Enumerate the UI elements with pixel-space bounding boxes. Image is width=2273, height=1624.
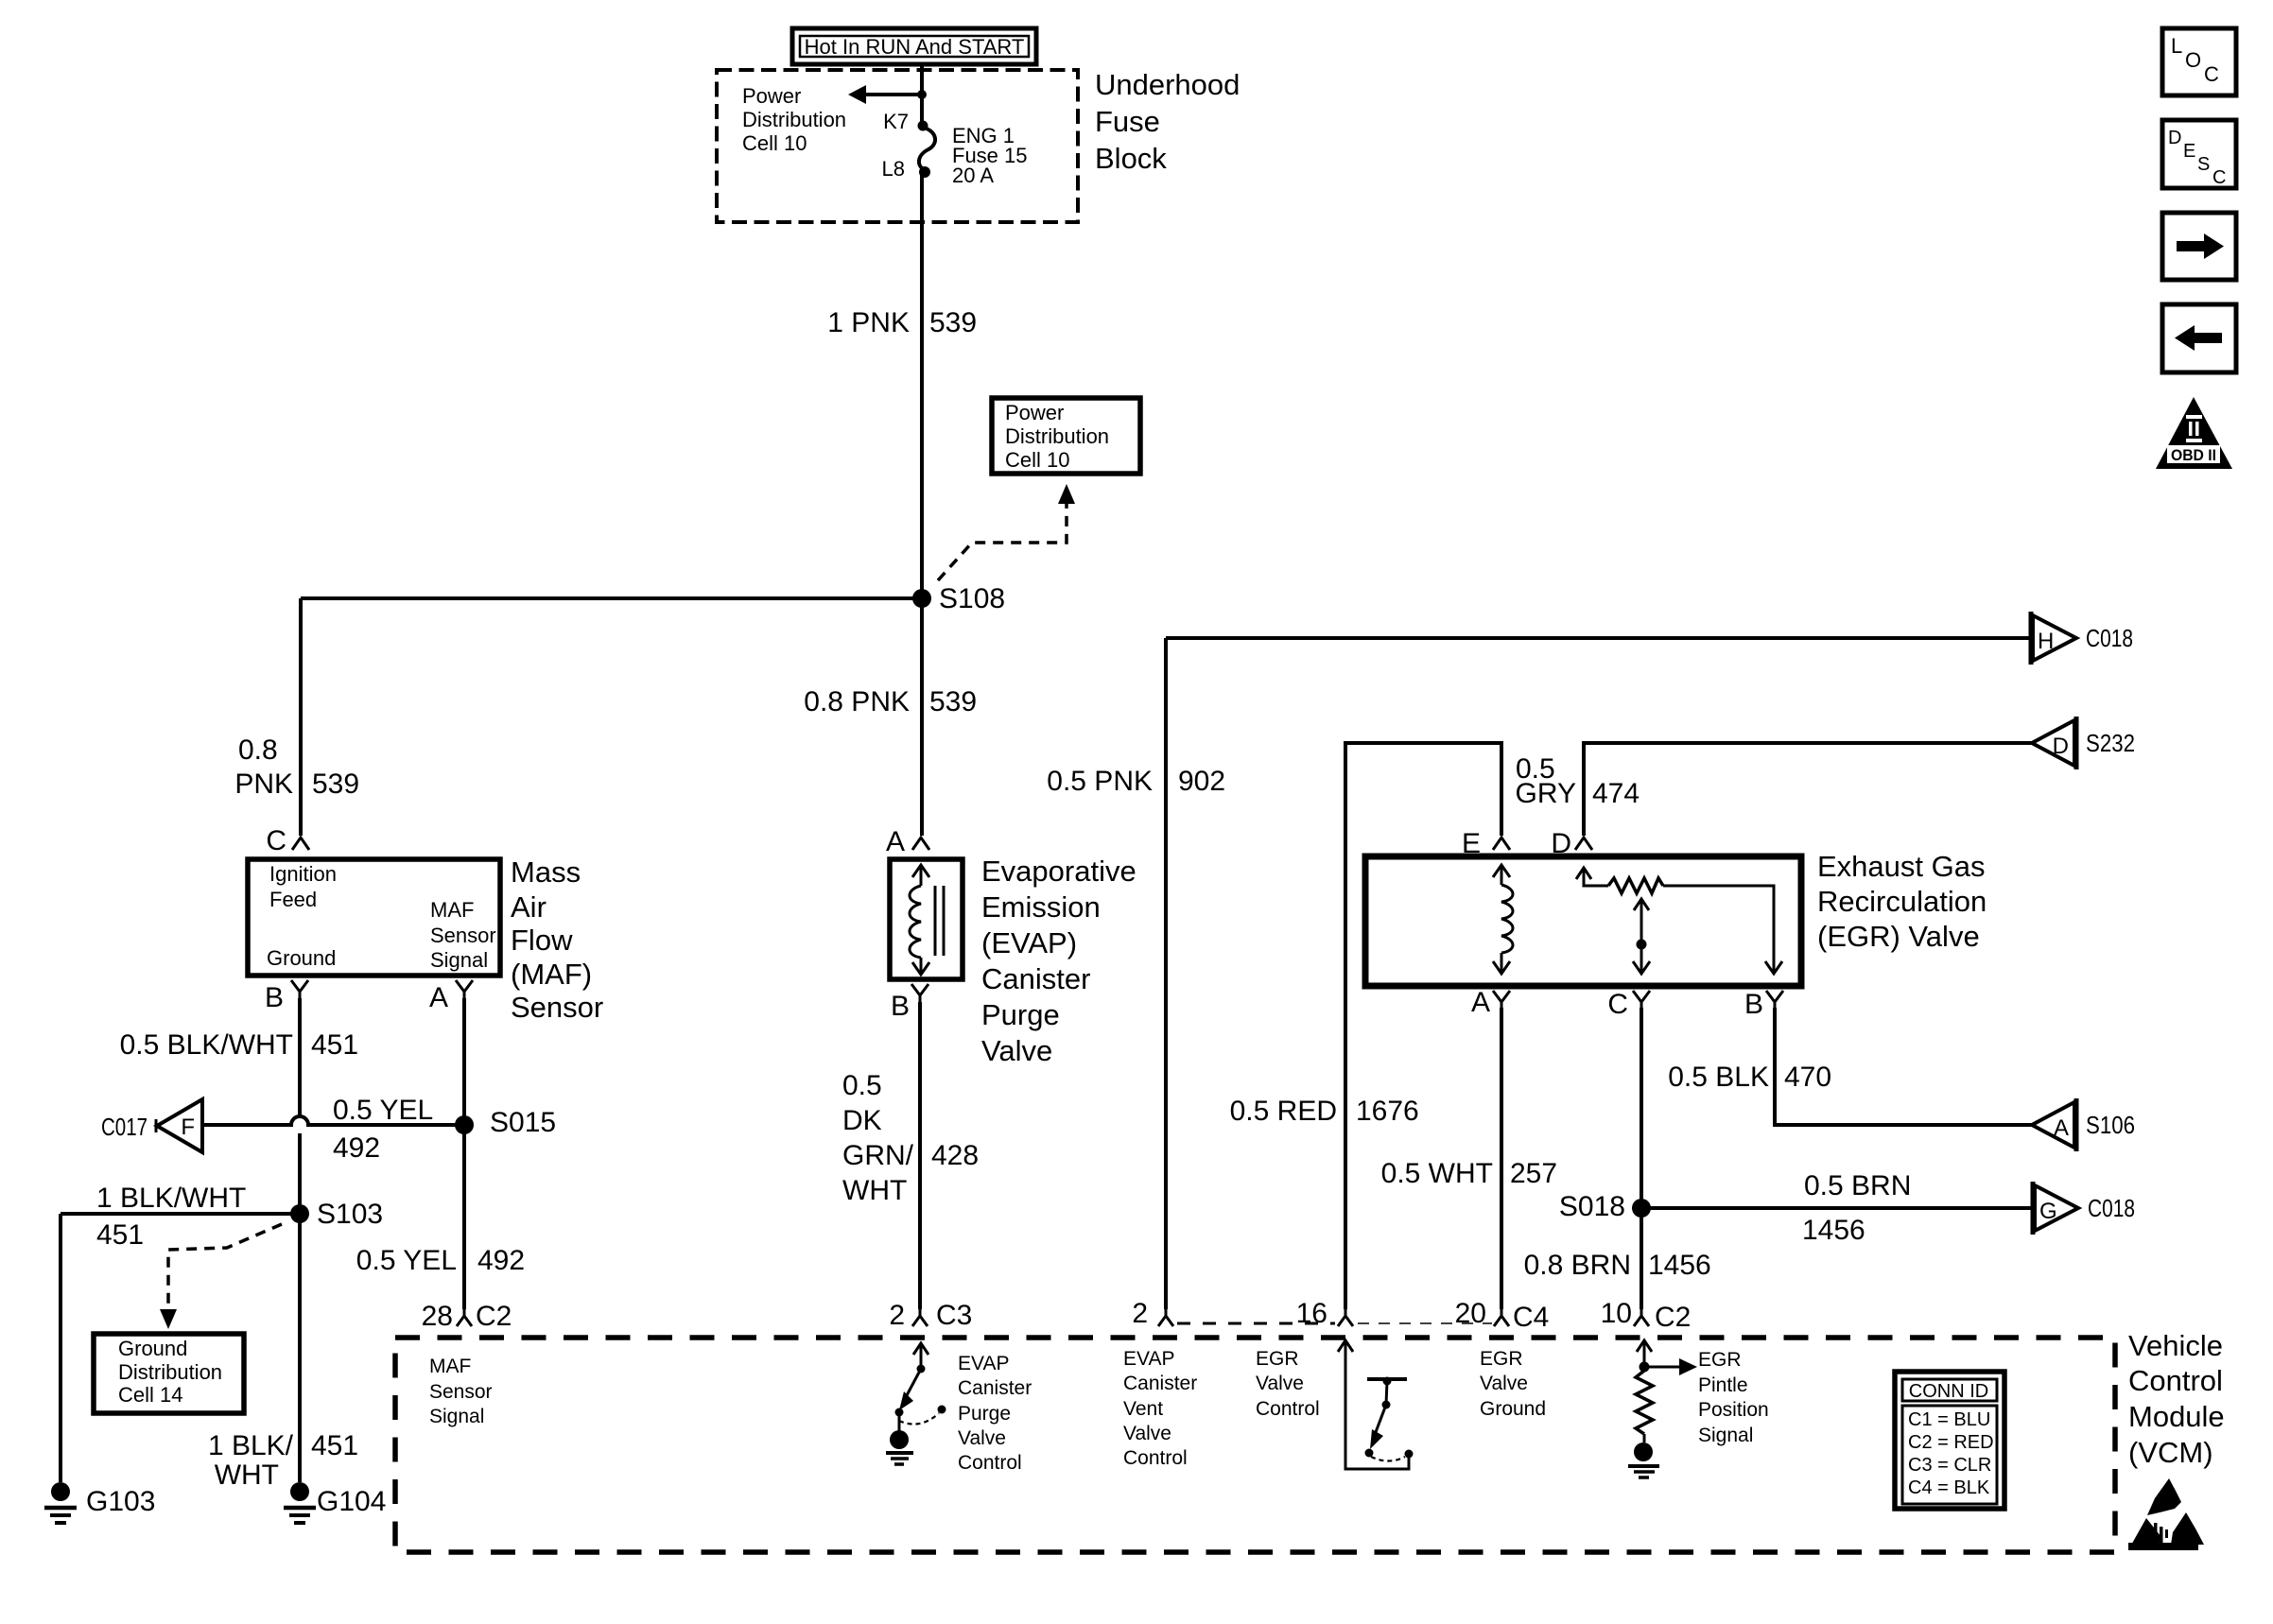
svg-text:WHT: WHT	[842, 1175, 907, 1206]
icon forward arrow box	[2162, 213, 2236, 280]
svg-text:C: C	[2212, 167, 2226, 188]
svg-text:2: 2	[1132, 1298, 1148, 1329]
svg-text:492: 492	[333, 1132, 380, 1164]
fuse ENG 1 Fuse 15 20 A	[919, 124, 1028, 187]
svg-text:Ground: Ground	[267, 946, 336, 970]
svg-text:Valve: Valve	[1123, 1423, 1171, 1444]
label MAF Sensor Signal (inside VCM)	[429, 1356, 493, 1427]
svg-text:Control: Control	[1123, 1447, 1188, 1469]
svg-text:1676: 1676	[1356, 1096, 1419, 1127]
svg-text:A: A	[1471, 987, 1490, 1018]
VCM dashed enclosure	[395, 1338, 2115, 1552]
svg-text:Distribution: Distribution	[742, 108, 846, 131]
svg-text:Sensor: Sensor	[429, 1381, 493, 1403]
svg-text:16: 16	[1296, 1298, 1327, 1329]
svg-text:539: 539	[929, 686, 977, 717]
svg-text:Canister: Canister	[981, 962, 1090, 995]
svg-text:Canister: Canister	[958, 1377, 1032, 1399]
pin C of EGR valve	[1607, 989, 1650, 1020]
svg-text:Signal: Signal	[430, 948, 488, 972]
MAF sensor box	[248, 859, 500, 976]
svg-text:Distribution: Distribution	[1005, 424, 1109, 448]
svg-text:S106: S106	[2086, 1111, 2135, 1139]
pin strip dashes pin2 to pin16	[1177, 1322, 1335, 1325]
svg-text:G103: G103	[86, 1486, 155, 1517]
terminal L8	[882, 157, 930, 181]
svg-text:0.5 YEL: 0.5 YEL	[356, 1245, 457, 1276]
svg-text:0.5 YEL: 0.5 YEL	[333, 1095, 433, 1126]
dashed reference arrow from S108 to Power Distribution box	[938, 484, 1075, 580]
svg-text:A: A	[429, 982, 448, 1013]
svg-text:Control: Control	[2128, 1364, 2223, 1397]
svg-text:Power: Power	[1005, 401, 1064, 424]
label EGR Valve Control	[1256, 1348, 1320, 1420]
wire 0.5 BLK/WHT 451 from MAF B down	[120, 998, 358, 1116]
svg-text:0.8 PNK: 0.8 PNK	[804, 686, 910, 717]
svg-text:Pintle: Pintle	[1698, 1374, 1748, 1396]
svg-text:S: S	[2197, 154, 2210, 175]
wire 0.5 WHT 257 from EGR A down to VCM pin 20	[1381, 1008, 1557, 1309]
wire 1 BLK/WHT 451 branch to G103	[61, 1183, 300, 1482]
svg-text:428: 428	[931, 1140, 979, 1171]
svg-text:C4 = BLK: C4 = BLK	[1908, 1477, 1990, 1498]
svg-text:OBD II: OBD II	[2171, 446, 2216, 464]
wire 0.8 PNK 539 down to MAF C	[234, 598, 359, 836]
svg-text:C2: C2	[476, 1301, 512, 1332]
svg-text:Recirculation: Recirculation	[1817, 885, 1987, 918]
svg-text:Emission: Emission	[981, 890, 1101, 924]
Ground Distribution Cell 14 reference box	[94, 1334, 244, 1413]
svg-text:GRY: GRY	[1516, 778, 1576, 809]
connector C017 triangle F	[101, 1099, 202, 1152]
EGR pintle internal ground	[1628, 1443, 1659, 1477]
connector S232 triangle D	[2032, 717, 2135, 769]
svg-text:Control: Control	[1256, 1398, 1320, 1420]
svg-text:0.8: 0.8	[238, 734, 278, 766]
svg-text:A: A	[2054, 1115, 2069, 1141]
svg-text:GRN/: GRN/	[842, 1140, 914, 1171]
svg-text:0.5 BRN: 0.5 BRN	[1804, 1170, 1911, 1201]
svg-text:C4: C4	[1513, 1302, 1549, 1333]
svg-text:Purge: Purge	[981, 998, 1060, 1031]
EVAP purge valve core bars	[935, 886, 944, 956]
svg-text:EGR: EGR	[1256, 1348, 1299, 1370]
svg-text:Control: Control	[958, 1452, 1022, 1474]
svg-text:Flow: Flow	[511, 924, 573, 957]
svg-text:O: O	[2185, 48, 2201, 72]
svg-text:Block: Block	[1095, 142, 1167, 175]
svg-text:C2: C2	[1655, 1302, 1691, 1333]
EVAP purge valve control driver (inside VCM)	[895, 1343, 946, 1431]
label Evaporative Emission (EVAP) Canister Purge Valve	[981, 855, 1136, 1067]
ground G103	[44, 1482, 155, 1523]
VCM pin 2 connector C3	[889, 1300, 972, 1331]
svg-text:Cell 14: Cell 14	[118, 1383, 182, 1407]
EVAP driver internal ground	[886, 1430, 913, 1464]
svg-text:Sensor: Sensor	[511, 991, 603, 1024]
svg-text:Exhaust Gas: Exhaust Gas	[1817, 850, 1985, 883]
svg-text:0.5 BLK: 0.5 BLK	[1668, 1062, 1769, 1093]
svg-text:539: 539	[312, 769, 359, 800]
svg-text:A: A	[886, 826, 905, 857]
icon DESC box	[2162, 120, 2236, 188]
svg-text:Valve: Valve	[981, 1034, 1052, 1067]
pin A of EGR valve	[1471, 987, 1510, 1018]
svg-text:EGR: EGR	[1480, 1348, 1523, 1370]
connector S106 triangle A	[2032, 1098, 2135, 1151]
svg-text:257: 257	[1510, 1158, 1557, 1189]
terminal K7	[883, 110, 928, 133]
label Exhaust Gas Recirculation (EGR) Valve	[1817, 850, 1987, 953]
svg-text:L: L	[2171, 34, 2182, 58]
dashed reference arrow from S103 to Ground Distribution box	[160, 1224, 282, 1329]
Underhood Fuse Block dashed enclosure	[717, 70, 1078, 222]
svg-text:E: E	[2183, 141, 2195, 162]
svg-text:1456: 1456	[1802, 1215, 1865, 1246]
connector A at EVAP purge valve	[886, 826, 929, 857]
svg-text:C: C	[266, 825, 286, 856]
svg-text:Cell 10: Cell 10	[742, 131, 807, 155]
svg-text:S232: S232	[2086, 729, 2135, 757]
svg-text:451: 451	[96, 1219, 144, 1251]
svg-text:0.5 RED: 0.5 RED	[1230, 1096, 1337, 1127]
svg-text:B: B	[1744, 989, 1763, 1020]
connector D at EGR valve	[1551, 828, 1592, 859]
label EVAP Canister Vent Valve Control	[1123, 1348, 1197, 1469]
svg-text:Signal: Signal	[1698, 1425, 1753, 1446]
pin B of EVAP purge valve	[891, 984, 928, 1022]
EGR valve box	[1365, 856, 1801, 986]
svg-text:B: B	[891, 991, 910, 1022]
svg-text:K7: K7	[883, 110, 909, 133]
EGR pintle potentiometer (pin D arrow, resistor, wiper)	[1576, 868, 1782, 974]
svg-text:C: C	[2204, 62, 2219, 86]
svg-text:Evaporative: Evaporative	[981, 855, 1136, 888]
svg-text:0.5 PNK: 0.5 PNK	[1047, 766, 1153, 797]
Power Distribution Cell 10 reference box	[992, 398, 1140, 474]
wire 0.5 GRY 474 from EGR D to S232 D	[1516, 743, 2032, 836]
svg-text:Vehicle: Vehicle	[2128, 1329, 2223, 1362]
svg-text:C3: C3	[936, 1300, 972, 1331]
svg-text:DK: DK	[842, 1105, 882, 1136]
svg-text:Underhood: Underhood	[1095, 68, 1240, 101]
svg-text:Canister: Canister	[1123, 1373, 1197, 1394]
connector C018 triangle H	[2031, 612, 2133, 665]
VCM pin 10 connector C2	[1601, 1298, 1692, 1333]
svg-text:451: 451	[311, 1430, 358, 1461]
svg-text:28: 28	[422, 1301, 453, 1332]
pin strip dashes pin16 to pin20	[1358, 1322, 1492, 1324]
svg-text:0.5: 0.5	[842, 1070, 882, 1101]
svg-text:MAF: MAF	[429, 1356, 471, 1377]
svg-text:1 PNK: 1 PNK	[827, 307, 910, 338]
svg-text:Ignition: Ignition	[269, 862, 337, 886]
label Underhood Fuse Block	[1095, 68, 1240, 175]
wire 0.8 BRN 1456 from EGR C down through S018 to VCM pin 10	[1524, 1008, 1711, 1309]
wire S108 branch left (ignition feed to MAF)	[301, 596, 922, 600]
svg-text:L8: L8	[882, 157, 905, 181]
label MAF Sensor Signal (MAF pin A)	[430, 898, 496, 972]
EVAP purge valve solenoid coil	[910, 865, 929, 975]
svg-text:492: 492	[477, 1245, 525, 1276]
label EVAP Canister Purge Valve Control	[958, 1353, 1032, 1474]
svg-text:0.8 BRN: 0.8 BRN	[1524, 1250, 1631, 1281]
svg-text:CONN ID: CONN ID	[1909, 1381, 1988, 1402]
arrow to Power Distribution Cell 10 (left feed)	[848, 85, 922, 104]
svg-text:EVAP: EVAP	[958, 1353, 1009, 1374]
svg-text:Valve: Valve	[958, 1427, 1006, 1449]
svg-text:Distribution: Distribution	[118, 1360, 222, 1384]
svg-text:S103: S103	[317, 1199, 383, 1230]
svg-text:S018: S018	[1559, 1191, 1625, 1222]
EGR pintle position sense (inside VCM)	[1636, 1340, 1697, 1443]
wire 0.5 DK GRN/WHT 428 from EVAP B down to VCM pin 2 C3	[842, 1002, 979, 1309]
connector C at MAF sensor	[266, 825, 309, 856]
svg-text:20 A: 20 A	[952, 164, 994, 187]
svg-text:Feed: Feed	[269, 888, 317, 911]
svg-text:Vent: Vent	[1123, 1398, 1163, 1420]
EGR valve control driver (inside VCM)	[1338, 1340, 1414, 1469]
svg-text:539: 539	[929, 307, 977, 338]
svg-text:C1 = BLU: C1 = BLU	[1908, 1409, 1990, 1430]
svg-text:Mass: Mass	[511, 855, 581, 889]
svg-text:(EGR) Valve: (EGR) Valve	[1817, 920, 1980, 953]
svg-text:Ground: Ground	[118, 1337, 187, 1360]
svg-text:EGR: EGR	[1698, 1349, 1742, 1371]
wire 0.5 BLK 470 from EGR B to S106 A	[1668, 1008, 2033, 1125]
svg-text:C017: C017	[101, 1113, 147, 1141]
splice S018	[1559, 1191, 1651, 1222]
splice S108	[912, 583, 1005, 614]
label EGR Valve Ground	[1480, 1348, 1546, 1420]
wire 0.5 BRN 1456 from S018 to C018 G	[1641, 1170, 2033, 1246]
wire 0.5 RED 1676 from EGR E up over to VCM pin 16	[1230, 743, 1501, 1309]
svg-text:G104: G104	[317, 1486, 386, 1517]
svg-text:MAF: MAF	[430, 898, 474, 922]
svg-text:0.5 BLK/WHT: 0.5 BLK/WHT	[120, 1029, 293, 1061]
label Power Distribution Cell 10 (in fuse block)	[742, 84, 846, 155]
svg-text:S108: S108	[939, 583, 1005, 614]
connector E at EGR valve	[1462, 828, 1510, 859]
svg-text:451: 451	[311, 1029, 358, 1061]
wire 0.5 PNK 902 down to VCM pin 2 (vent valve)	[1047, 638, 1225, 1309]
pin A of MAF sensor	[429, 980, 473, 1013]
wire 0.5 PNK 902 horizontal run to C018 H	[1166, 636, 2031, 640]
svg-text:1456: 1456	[1648, 1250, 1711, 1281]
icon LOC box	[2162, 28, 2236, 95]
CONN ID table	[1895, 1372, 2004, 1509]
EGR solenoid coil (pin E to A)	[1493, 865, 1513, 974]
svg-text:902: 902	[1178, 766, 1225, 797]
svg-text:H: H	[2038, 629, 2054, 654]
VCM pin 16	[1296, 1298, 1353, 1329]
svg-text:D: D	[2053, 734, 2069, 759]
VCM pin 2 (EVAP vent)	[1132, 1298, 1173, 1329]
svg-text:C2 = RED: C2 = RED	[1908, 1432, 1994, 1453]
svg-text:0.5 WHT: 0.5 WHT	[1381, 1158, 1493, 1189]
icon back arrow box	[2162, 304, 2236, 372]
svg-text:(MAF): (MAF)	[511, 958, 592, 991]
ESD sensitive device symbol	[2128, 1478, 2204, 1550]
ground G104	[284, 1482, 386, 1523]
svg-text:Fuse: Fuse	[1095, 105, 1160, 138]
VCM pin 20 connector C4	[1455, 1298, 1550, 1333]
svg-text:Valve: Valve	[1256, 1373, 1304, 1394]
svg-text:G: G	[2039, 1199, 2057, 1224]
svg-text:Signal: Signal	[429, 1406, 484, 1427]
svg-text:Module: Module	[2128, 1400, 2225, 1433]
svg-text:Purge: Purge	[958, 1403, 1011, 1425]
pin B of EGR valve	[1744, 989, 1783, 1020]
svg-text:20: 20	[1455, 1298, 1486, 1329]
svg-text:Ground: Ground	[1480, 1398, 1546, 1420]
label Ignition Feed (MAF pin C)	[269, 862, 337, 911]
svg-text:(VCM): (VCM)	[2128, 1436, 2213, 1469]
svg-text:Air: Air	[511, 890, 547, 924]
svg-text:Power: Power	[742, 84, 801, 108]
svg-text:PNK: PNK	[234, 769, 293, 800]
svg-text:EVAP: EVAP	[1123, 1348, 1174, 1370]
splice S015	[455, 1107, 556, 1138]
svg-text:1 BLK/: 1 BLK/	[208, 1430, 294, 1461]
svg-text:Hot In RUN And START: Hot In RUN And START	[805, 35, 1025, 59]
svg-text:Position: Position	[1698, 1399, 1769, 1421]
svg-text:Valve: Valve	[1480, 1373, 1528, 1394]
wire from Hot In RUN And START down to fuse terminal K7	[920, 62, 924, 126]
wire 1 PNK 539 from fuse L8 down to splice S108	[827, 172, 977, 598]
svg-text:F: F	[181, 1114, 195, 1140]
label Vehicle Control Module (VCM)	[2128, 1329, 2225, 1469]
wire 0.5 YEL 492 from MAF A down to VCM pin 28	[356, 998, 525, 1309]
svg-text:D: D	[2168, 128, 2181, 148]
svg-text:474: 474	[1592, 778, 1640, 809]
wire 1 BLK/WHT 451 from S103 down to G104	[208, 1214, 358, 1491]
node B+ Hot In RUN And START box	[792, 28, 1036, 64]
EVAP purge valve box	[890, 859, 963, 979]
wire 0.8 PNK 539 from S108 down to EVAP valve A	[804, 598, 977, 836]
icon OBD II triangle	[2156, 397, 2232, 469]
svg-text:C018: C018	[2088, 1194, 2135, 1222]
svg-text:Cell 10: Cell 10	[1005, 448, 1069, 472]
pin B of MAF sensor	[265, 980, 308, 1013]
svg-text:C3 = CLR: C3 = CLR	[1908, 1455, 1991, 1476]
svg-text:C: C	[1607, 989, 1628, 1020]
label EGR Pintle Position Signal	[1698, 1349, 1769, 1446]
svg-text:WHT: WHT	[215, 1460, 279, 1491]
label Mass Air Flow (MAF) Sensor	[511, 855, 603, 1024]
splice S103	[290, 1199, 383, 1230]
wire segment B continues below YEL tap to S103	[298, 1133, 302, 1214]
svg-text:S015: S015	[490, 1107, 556, 1138]
svg-text:D: D	[1551, 828, 1571, 859]
svg-text:Sensor: Sensor	[430, 924, 496, 947]
wire 0.5 YEL 492 from C017 F to splice S015 (hops over BLK/WHT wire)	[204, 1095, 464, 1164]
svg-text:470: 470	[1784, 1062, 1831, 1093]
junction dot on feed wire	[917, 90, 927, 99]
svg-text:1 BLK/WHT: 1 BLK/WHT	[96, 1183, 246, 1214]
svg-text:C018: C018	[2086, 624, 2133, 652]
svg-text:10: 10	[1601, 1298, 1632, 1329]
svg-text:2: 2	[889, 1300, 905, 1331]
svg-text:(EVAP): (EVAP)	[981, 926, 1077, 959]
connector C018 triangle G	[2033, 1182, 2135, 1235]
svg-text:E: E	[1462, 828, 1481, 859]
VCM pin 28 connector C2	[422, 1301, 512, 1332]
svg-text:B: B	[265, 982, 284, 1013]
